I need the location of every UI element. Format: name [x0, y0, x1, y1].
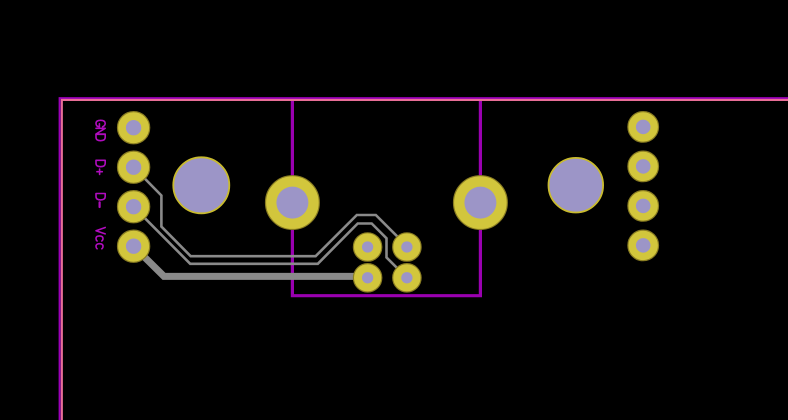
connector J2 pad 4	[628, 230, 659, 261]
wire trace D+ (J1 pad2 to U1 pad top-right)	[134, 167, 407, 256]
label Vcc	[96, 228, 105, 249]
label D+	[96, 160, 105, 174]
wire trace Vcc (J1 pad4 to U1 pad bottom-left, thick)	[134, 246, 368, 276]
component U1 pad 1 (top-left)	[353, 233, 381, 261]
courtyard box U1 (purple)	[292, 100, 480, 296]
wire trace D- (J1 pad3 to U1 pad bottom-right)	[134, 207, 407, 278]
component U1 pad 2 (top-right)	[393, 233, 421, 261]
connector J1 pad 1 GND	[118, 112, 150, 144]
component U1 pad 3 (bottom-left)	[353, 264, 381, 292]
connector J1 pad 4 Vcc	[118, 230, 150, 262]
label D-	[96, 194, 105, 208]
connector J1 pad 2 D+	[118, 151, 150, 183]
mounting hole NPTH1	[173, 157, 229, 213]
component U1 pad 4 (bottom-right)	[393, 264, 421, 292]
connector J1 pad 3 D-	[118, 191, 150, 223]
connector J2 pad 1	[628, 112, 659, 143]
board outline Edge.Cuts (outer purple)	[60, 98, 788, 420]
board outline margin (inner pink)	[62, 100, 788, 420]
through-hole pad TH1	[266, 176, 320, 230]
connector J2 pad 3	[628, 191, 659, 222]
connector J2 pad 2	[628, 151, 659, 182]
mounting hole NPTH2	[549, 158, 604, 213]
through-hole pad TH2	[454, 176, 508, 230]
label GND	[96, 120, 105, 140]
